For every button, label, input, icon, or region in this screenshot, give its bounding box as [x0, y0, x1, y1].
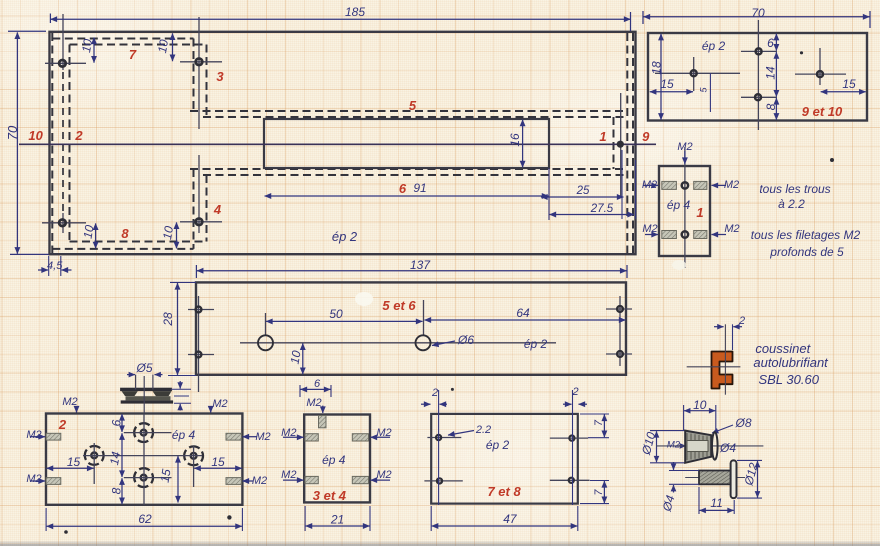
svg-text:6: 6: [314, 378, 321, 390]
svg-text:7: 7: [129, 47, 137, 62]
svg-text:tous les filetages M2: tous les filetages M2: [751, 228, 861, 242]
svg-text:11: 11: [710, 496, 722, 510]
svg-text:137: 137: [410, 258, 431, 272]
svg-text:47: 47: [503, 512, 518, 526]
svg-text:tous les trous: tous les trous: [759, 182, 830, 196]
svg-text:7: 7: [593, 489, 605, 496]
svg-text:1: 1: [696, 205, 703, 220]
svg-text:M2: M2: [724, 179, 739, 191]
svg-text:M2: M2: [62, 396, 77, 408]
svg-text:5: 5: [409, 98, 417, 113]
svg-text:14: 14: [107, 450, 123, 466]
svg-text:M2: M2: [376, 427, 391, 439]
svg-text:coussinet: coussinet: [755, 341, 811, 356]
svg-text:8: 8: [764, 103, 778, 110]
svg-text:M2: M2: [252, 475, 267, 487]
svg-text:4,5: 4,5: [47, 260, 63, 272]
svg-text:1: 1: [599, 129, 606, 144]
svg-text:15: 15: [158, 468, 174, 484]
svg-text:14: 14: [764, 66, 778, 80]
svg-text:25: 25: [576, 185, 590, 197]
svg-text:27.5: 27.5: [590, 203, 614, 215]
svg-text:ép 2: ép 2: [702, 39, 726, 53]
svg-text:15: 15: [660, 77, 674, 91]
svg-text:15: 15: [67, 455, 81, 469]
svg-text:6: 6: [767, 36, 774, 50]
svg-text:62: 62: [138, 512, 152, 526]
svg-text:M2: M2: [281, 427, 296, 439]
svg-text:7 et 8: 7 et 8: [487, 484, 521, 499]
svg-text:10: 10: [288, 349, 304, 365]
svg-text:ép 2: ép 2: [524, 337, 548, 351]
svg-text:7: 7: [593, 419, 605, 426]
svg-text:profonds de 5: profonds de 5: [769, 245, 844, 259]
svg-text:28: 28: [161, 312, 175, 327]
svg-text:2: 2: [431, 387, 438, 399]
svg-text:8: 8: [110, 487, 124, 494]
svg-text:2: 2: [74, 128, 83, 143]
svg-text:M2: M2: [642, 223, 657, 235]
svg-text:16: 16: [508, 133, 522, 147]
svg-text:21: 21: [330, 513, 344, 527]
svg-text:6: 6: [110, 419, 124, 426]
svg-text:18: 18: [650, 61, 664, 75]
svg-text:M2: M2: [26, 473, 41, 485]
svg-text:SBL 30.60: SBL 30.60: [758, 372, 819, 387]
svg-text:M2: M2: [212, 398, 227, 410]
svg-text:8: 8: [121, 226, 129, 241]
svg-text:ép 2: ép 2: [332, 229, 358, 244]
svg-text:Ø4: Ø4: [660, 493, 678, 513]
svg-text:9: 9: [642, 129, 650, 144]
svg-text:M2: M2: [26, 429, 41, 441]
svg-text:2: 2: [738, 315, 745, 327]
svg-text:Ø4: Ø4: [719, 441, 736, 455]
svg-text:9 et 10: 9 et 10: [802, 104, 843, 119]
svg-text:à 2.2: à 2.2: [778, 197, 805, 211]
svg-text:64: 64: [516, 306, 530, 320]
svg-text:ép 4: ép 4: [667, 198, 691, 212]
svg-text:10: 10: [155, 38, 171, 54]
svg-text:50: 50: [329, 307, 343, 321]
svg-text:autolubrifiant: autolubrifiant: [753, 355, 829, 370]
svg-text:10: 10: [693, 398, 707, 412]
svg-text:4: 4: [213, 202, 222, 217]
svg-text:Ø5: Ø5: [135, 361, 152, 375]
svg-text:Ø10: Ø10: [639, 430, 659, 457]
svg-text:M2: M2: [724, 223, 739, 235]
svg-text:M2: M2: [281, 469, 296, 481]
svg-text:2.2: 2.2: [475, 424, 491, 436]
svg-text:M2: M2: [306, 397, 321, 409]
svg-text:M2: M2: [667, 440, 681, 451]
svg-text:10: 10: [79, 38, 95, 54]
svg-text:185: 185: [345, 5, 365, 19]
svg-text:Ø8: Ø8: [734, 416, 751, 430]
svg-text:6: 6: [399, 181, 407, 196]
svg-text:15: 15: [842, 77, 856, 91]
svg-text:Ø6: Ø6: [457, 333, 474, 347]
svg-text:3 et 4: 3 et 4: [313, 488, 347, 503]
svg-text:ép 4: ép 4: [322, 453, 346, 467]
svg-text:10: 10: [81, 224, 97, 240]
svg-text:70: 70: [5, 125, 20, 140]
svg-text:2: 2: [58, 417, 67, 432]
svg-text:3: 3: [216, 69, 224, 84]
svg-text:70: 70: [751, 6, 765, 20]
svg-text:15: 15: [211, 455, 225, 469]
svg-text:M2: M2: [677, 141, 692, 153]
svg-text:5: 5: [699, 87, 709, 93]
svg-text:ép 4: ép 4: [172, 428, 196, 442]
svg-text:10: 10: [160, 225, 176, 241]
svg-text:M2: M2: [642, 179, 657, 191]
svg-text:5 et 6: 5 et 6: [382, 298, 416, 313]
svg-text:M2: M2: [255, 431, 270, 443]
svg-text:10: 10: [28, 128, 43, 143]
svg-text:ép 2: ép 2: [486, 438, 510, 452]
svg-text:M2: M2: [376, 469, 391, 481]
svg-text:91: 91: [413, 181, 426, 195]
svg-text:2: 2: [571, 386, 578, 398]
